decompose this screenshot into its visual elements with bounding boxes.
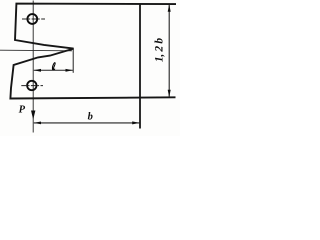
- arrow 1,2b bottom: [168, 90, 171, 98]
- centerline vertical (through pin holes, load line): [32, 1, 34, 133]
- arrow b right: [132, 121, 140, 124]
- svg-text:1,2b: 1,2b: [154, 38, 166, 63]
- specimen right edge (with extension below for b dimension): [139, 4, 141, 129]
- centerline horizontal (notch axis): [0, 49, 72, 52]
- arrow l right: [66, 69, 73, 72]
- dimension line 1,2b: [168, 4, 170, 97]
- svg-text:b: b: [88, 111, 93, 122]
- dimension line b: [34, 122, 140, 124]
- extension line from notch tip: [72, 49, 74, 73]
- arrow 1,2b top: [168, 4, 171, 12]
- dimension line l: [34, 69, 73, 71]
- svg-text:P: P: [19, 105, 26, 116]
- load arrow P: [31, 111, 35, 120]
- arrow b left: [34, 122, 41, 125]
- pin hole top: [27, 14, 37, 24]
- crosshair bottom hole: [21, 85, 43, 87]
- label l: [52, 63, 55, 70]
- crosshair top hole: [22, 18, 45, 20]
- arrow l left: [34, 69, 41, 72]
- pin hole bottom: [27, 81, 36, 90]
- specimen outline: [10, 4, 176, 99]
